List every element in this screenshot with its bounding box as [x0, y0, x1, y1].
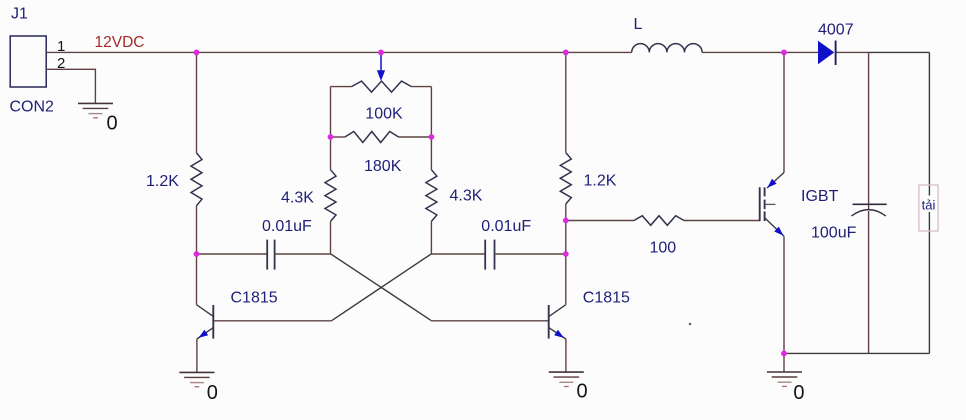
wire base Q1 — [213, 320, 332, 322]
svg-text:0.01uF: 0.01uF — [262, 218, 312, 235]
wire bottom rail — [784, 352, 930, 354]
node junction 3 — [563, 50, 569, 56]
wire rail to C100uF — [868, 52, 870, 209]
wire pot right lead — [412, 86, 432, 88]
pot wiper arrow — [380, 52, 382, 72]
capacitor 0.01uF right — [484, 240, 486, 270]
svg-text:180K: 180K — [364, 158, 402, 175]
node junction 1 — [194, 50, 200, 56]
wire 12VDC rail from J1 pin1 — [46, 51, 632, 53]
svg-text:0: 0 — [207, 382, 218, 404]
wire base Q2 — [431, 320, 549, 322]
resistor 1.2K right — [560, 153, 571, 204]
transistor Q2 C1815 — [548, 305, 550, 339]
ground 0 at Q2 — [549, 371, 584, 373]
svg-text:tải: tải — [922, 198, 936, 213]
transistor Q1 C1815 — [212, 305, 214, 339]
wire cross left-to-right — [331, 254, 432, 321]
node junction 10 — [781, 351, 787, 357]
wire pot left lead — [331, 86, 352, 88]
wire cap node to load corner — [869, 51, 930, 53]
resistor 4.3K right — [426, 170, 437, 222]
wire node to cap node — [565, 221, 567, 255]
wire R1.2K right to node — [565, 204, 567, 221]
wire pot left side down — [330, 87, 332, 137]
wire IGBT emitter down — [783, 236, 785, 353]
wire J1 pin2 to ground — [46, 69, 95, 103]
svg-text:4.3K: 4.3K — [450, 188, 483, 205]
wire R1.2K to node — [196, 206, 198, 254]
svg-text:4007: 4007 — [818, 21, 854, 38]
svg-text:12VDC: 12VDC — [95, 34, 145, 51]
wire Q2 emitter to ground — [565, 339, 567, 372]
resistor 100 — [634, 216, 684, 226]
capacitor 0.01uF left — [266, 240, 268, 270]
wire R4.3K right down — [430, 221, 432, 254]
wire cross right-to-left — [332, 254, 431, 321]
wire rail to R1.2K right — [565, 52, 567, 152]
wire diode to cap node — [836, 51, 868, 53]
wire C100uF to bottom rail — [868, 211, 870, 353]
inductor L — [632, 44, 702, 53]
svg-text:4.3K: 4.3K — [281, 190, 314, 207]
potentiometer 100K — [352, 81, 412, 92]
capacitor 100uF — [853, 203, 887, 205]
stray mark — [689, 323, 691, 325]
wire Q1 emitter to ground — [196, 339, 198, 372]
svg-text:CON2: CON2 — [10, 99, 55, 116]
node junction 4 — [781, 50, 787, 56]
wire node to Q1 collector — [196, 254, 198, 305]
ground 0 at J1 — [78, 102, 113, 104]
wire C right to node — [495, 253, 566, 255]
svg-text:L: L — [634, 16, 643, 33]
svg-text:C1815: C1815 — [583, 290, 630, 307]
wire load branch lower — [928, 231, 930, 353]
wire rail to R 1.2K left — [196, 52, 198, 152]
svg-text:IGBT: IGBT — [801, 188, 839, 205]
resistor 1.2K left — [191, 153, 202, 206]
wire to ground at IGBT — [783, 353, 785, 372]
svg-text:0: 0 — [577, 380, 588, 402]
resistor 180K — [331, 136, 345, 138]
node junction 9 — [563, 251, 569, 257]
connector J1 — [10, 36, 46, 87]
wire load branch upper — [928, 52, 930, 185]
load tai box — [928, 185, 930, 231]
wire pot right side down — [430, 87, 432, 137]
wire 4.3K node to C 0.01uF right — [431, 253, 485, 255]
wire rail to IGBT collector — [783, 52, 785, 172]
wire node to R100 — [566, 220, 634, 222]
node junction 5 — [194, 251, 200, 257]
wire rail inductor to diode — [702, 51, 818, 53]
svg-text:100K: 100K — [365, 106, 403, 123]
node junction 6 — [328, 134, 334, 140]
svg-text:100uF: 100uF — [811, 225, 857, 242]
svg-text:0: 0 — [107, 112, 118, 134]
resistor 4.3K left — [325, 170, 336, 222]
svg-text:0.01uF: 0.01uF — [481, 218, 531, 235]
svg-text:0: 0 — [793, 382, 804, 404]
node junction 8 — [563, 218, 569, 224]
svg-text:J1: J1 — [11, 6, 28, 23]
node junction 2 — [378, 50, 384, 56]
node junction 7 — [429, 134, 435, 140]
transistor IGBT — [759, 187, 761, 221]
wire R100 to IGBT gate — [684, 220, 760, 222]
ground 0 at IGBT — [767, 371, 802, 373]
wire C left to 4.3K node — [275, 253, 331, 255]
ground 0 at Q1 — [179, 371, 214, 373]
wire R4.3K left down — [330, 221, 332, 254]
svg-text:1.2K: 1.2K — [584, 173, 617, 190]
svg-text:C1815: C1815 — [231, 290, 278, 307]
wire node to C 0.01uF left — [197, 253, 268, 255]
wire node to R4.3K right — [430, 137, 432, 170]
wire node to R4.3K left — [330, 137, 332, 170]
svg-text:100: 100 — [650, 240, 677, 257]
svg-text:1.2K: 1.2K — [146, 173, 179, 190]
diode 4007 — [818, 41, 834, 64]
wire cap node to Q2 collector — [565, 254, 567, 305]
